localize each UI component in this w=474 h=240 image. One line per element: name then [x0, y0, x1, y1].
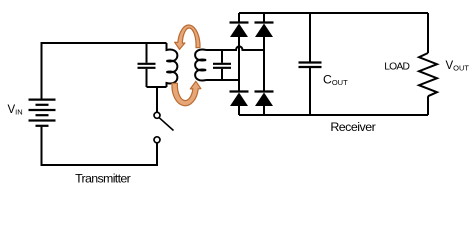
- svg-text:COUT: COUT: [323, 72, 348, 87]
- svg-text:VOUT: VOUT: [446, 60, 470, 73]
- svg-text:Receiver: Receiver: [330, 120, 375, 134]
- svg-text:Transmitter: Transmitter: [75, 172, 131, 186]
- svg-text:VIN: VIN: [8, 104, 23, 117]
- svg-text:LOAD: LOAD: [384, 62, 409, 73]
